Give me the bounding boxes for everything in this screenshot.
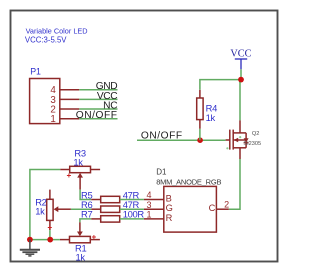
R2 top pin xyxy=(49,190,51,200)
Q2 bulk arrow xyxy=(234,138,239,143)
wire R7 to D1 pin1 xyxy=(120,218,144,220)
Q2 pin end dot source xyxy=(226,147,228,149)
potentiometer R2 xyxy=(47,199,53,220)
svg-text:1: 1 xyxy=(50,114,55,125)
R1 right pin xyxy=(90,239,100,241)
R1 origin cross xyxy=(92,235,96,239)
R2 wiper pin xyxy=(58,208,71,210)
wire left rail to R3 xyxy=(30,170,60,240)
R4 top pin xyxy=(199,90,201,98)
Q2 body diode xyxy=(244,138,249,142)
R1 left pin xyxy=(60,239,70,241)
resistor R5 xyxy=(101,196,120,202)
junction ground bus left xyxy=(27,237,33,243)
svg-text:ON/OFF: ON/OFF xyxy=(76,110,118,121)
wire net VCC from P1 xyxy=(79,98,117,100)
P1 pin 4 stub xyxy=(60,89,80,91)
wire net GND from P1 xyxy=(79,89,117,91)
svg-text:Variable Color LED: Variable Color LED xyxy=(26,26,88,35)
svg-text:8MM_ANODE_RGB: 8MM_ANODE_RGB xyxy=(156,177,221,186)
VCC power symbol xyxy=(235,59,247,69)
svg-text:4: 4 xyxy=(146,190,151,200)
R7 left pin xyxy=(91,218,101,220)
svg-text:VCC:3-5.5V: VCC:3-5.5V xyxy=(25,35,67,44)
junction ON/OFF / R4 xyxy=(197,137,203,143)
ground symbol xyxy=(20,240,40,256)
R6 left pin xyxy=(91,208,101,210)
potentiometer R3 xyxy=(70,166,91,172)
resistor R7 xyxy=(101,216,120,222)
R1 wiper arrow xyxy=(77,232,83,237)
svg-text:SI2305: SI2305 xyxy=(243,141,261,147)
D1 pin 1 stub (R) xyxy=(144,218,164,220)
P1 pin 1 stub xyxy=(60,118,80,120)
wire VCC stem to junction xyxy=(240,69,242,80)
svg-text:P1: P1 xyxy=(30,67,41,77)
svg-text:1k: 1k xyxy=(35,206,45,217)
svg-text:Q2: Q2 xyxy=(252,131,259,137)
wire R6 to D1 pin3 xyxy=(120,208,144,210)
R3 wiper pin xyxy=(79,177,81,189)
resistor R6 xyxy=(101,206,120,212)
svg-text:3: 3 xyxy=(146,200,151,210)
R3 origin cross xyxy=(67,174,71,178)
R4 bottom pin xyxy=(199,120,201,129)
svg-text:1k: 1k xyxy=(76,252,86,263)
potentiometer R1 xyxy=(70,236,91,242)
resistor R4 xyxy=(197,98,203,120)
svg-text:C: C xyxy=(209,203,216,213)
wire ON/OFF to gate xyxy=(137,139,226,141)
wire ground bus xyxy=(30,239,60,241)
transistor Q2 xyxy=(226,120,247,159)
svg-text:B: B xyxy=(166,193,172,203)
wire R2 bottom to bus xyxy=(49,230,51,240)
R2 wiper arrow xyxy=(54,206,59,212)
svg-text:R: R xyxy=(166,213,173,223)
wire R4 top elbow to VCC rail xyxy=(200,80,241,90)
P1 pin 3 stub xyxy=(60,98,80,100)
wire R2 wiper to R6 xyxy=(71,208,91,210)
D1 pin 4 stub (B) xyxy=(144,199,164,201)
R3 right pin xyxy=(91,169,101,171)
wire net ON/OFF from P1 xyxy=(79,118,117,120)
junction ground bus right xyxy=(47,237,53,243)
LED D1 xyxy=(164,186,217,232)
wire Q2 drain to D1 pin 2 xyxy=(229,159,240,209)
D1 pin 2 stub (C) xyxy=(216,208,228,210)
frame border xyxy=(11,11,278,262)
R2 bottom pin xyxy=(49,220,51,230)
R3 wiper arrow xyxy=(77,173,83,178)
svg-text:1k: 1k xyxy=(73,156,83,167)
wire R3 wiper to R5 xyxy=(80,190,91,200)
svg-text:D1: D1 xyxy=(156,168,167,177)
svg-text:VCC: VCC xyxy=(230,48,251,59)
R5 left pin xyxy=(91,199,101,201)
wire net NC from P1 xyxy=(79,108,117,110)
svg-text:2: 2 xyxy=(224,199,229,209)
wire VCC down to Q2 source xyxy=(239,82,241,120)
R1 wiper pin xyxy=(79,222,81,232)
svg-text:R7: R7 xyxy=(81,209,92,220)
wire R4 bottom to ON/OFF junction xyxy=(199,129,201,140)
wire R5 to D1 pin4 xyxy=(120,199,144,201)
svg-text:1k: 1k xyxy=(206,112,216,123)
P1 pin 2 stub xyxy=(60,108,80,110)
wire R1 wiper to R7 xyxy=(80,219,91,222)
connector P1 xyxy=(30,79,60,124)
R3 left pin xyxy=(60,169,69,171)
svg-text:1: 1 xyxy=(146,210,151,220)
svg-text:100R: 100R xyxy=(123,209,145,220)
D1 pin 3 stub (G) xyxy=(144,208,164,210)
R2 origin cross xyxy=(48,226,52,230)
Q2 pin end dot bulk xyxy=(239,136,241,138)
svg-text:G: G xyxy=(166,203,173,213)
junction VCC rail xyxy=(239,80,241,83)
